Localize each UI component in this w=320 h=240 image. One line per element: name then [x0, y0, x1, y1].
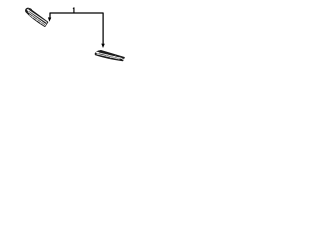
right plate end curl opening — [122, 58, 124, 60]
right plate top face seam — [98, 53, 123, 59]
right plate mid nick 2 — [110, 56, 112, 58]
left plate body nick 1 — [36, 18, 37, 21]
right plate end seam 1 — [114, 56, 116, 58]
leader bracket wire — [50, 13, 103, 44]
right plate mid nick — [106, 54, 108, 56]
left plate end notch — [45, 23, 46, 25]
left plate envelope — [25, 9, 47, 27]
left plate lamination seam B — [29, 15, 45, 26]
right plate end seam 2 — [119, 57, 121, 59]
right plate lamination seam — [97, 54, 120, 59]
right plate tip curl arc — [96, 51, 101, 54]
arrow to left plate — [48, 17, 51, 21]
left plate tip hook — [26, 8, 31, 9]
left plate curl opening — [26, 9, 30, 12]
left plate body nick 3 — [32, 16, 33, 18]
left plate top face band — [28, 10, 47, 23]
right plate curl opening — [96, 51, 100, 53]
left plate body nick 2 — [40, 21, 41, 24]
background — [0, 0, 150, 76]
left plate lamination seam A — [28, 12, 46, 25]
right plate envelope — [95, 50, 124, 60]
reference numeral 1 tick — [73, 7, 75, 13]
arrow to right plate — [101, 44, 105, 48]
